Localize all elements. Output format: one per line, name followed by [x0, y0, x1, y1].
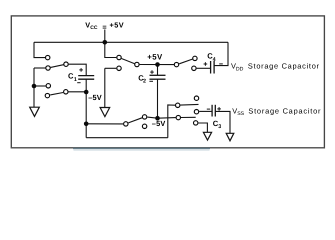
svg-text:2: 2 [143, 79, 146, 85]
svg-text:DD: DD [236, 66, 244, 72]
svg-text:Storage Capacitor: Storage Capacitor [248, 106, 321, 115]
svg-text:–5V: –5V [88, 93, 102, 102]
svg-text:3: 3 [218, 124, 221, 130]
svg-text:–5V: –5V [152, 119, 166, 128]
svg-text:Storage Capacitor: Storage Capacitor [248, 62, 320, 71]
svg-text:+5V: +5V [147, 52, 163, 61]
svg-text:4: 4 [213, 57, 216, 63]
svg-text:+5V: +5V [110, 20, 125, 29]
svg-text:CC: CC [90, 25, 98, 31]
svg-text:SS: SS [237, 111, 244, 117]
svg-text:1: 1 [74, 77, 77, 83]
svg-text:=: = [102, 22, 106, 31]
